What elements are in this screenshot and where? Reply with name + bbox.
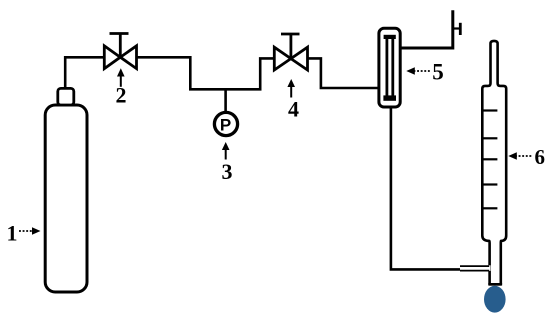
svg-text:3: 3 xyxy=(222,159,233,184)
svg-text:P: P xyxy=(220,116,231,135)
arrow to burette 6 xyxy=(515,155,532,157)
wire cylinder to valve 2 xyxy=(65,57,104,89)
wire valve 4 to rotameter xyxy=(308,58,379,88)
burette 6 outline xyxy=(482,41,506,284)
gas cylinder 1 body xyxy=(45,105,87,292)
burette graduation tick 2 xyxy=(482,137,497,139)
vent outlet tick xyxy=(453,27,460,29)
rotameter 5 inner tube xyxy=(387,37,393,98)
rotameter 5 outer shell xyxy=(379,28,400,107)
gas cylinder 1 neck cap xyxy=(58,88,74,105)
valve V4 handle xyxy=(281,34,300,59)
svg-text:1: 1 xyxy=(7,221,18,246)
valve V4 body xyxy=(274,47,307,70)
wire rotameter to burette (down-right loop) xyxy=(391,107,461,269)
rotameter 5 float bar xyxy=(383,95,396,100)
pressure gauge P circle xyxy=(214,112,237,135)
vent line from rotameter top xyxy=(400,10,453,48)
burette graduation tick 3 xyxy=(482,158,497,160)
svg-text:2: 2 xyxy=(116,83,127,108)
arrow to gauge 3 xyxy=(225,149,227,160)
arrow to valve 2 xyxy=(120,75,122,87)
vent outlet bar xyxy=(459,23,462,35)
arrow to cylinder 1 xyxy=(19,230,32,232)
side arm tube into burette xyxy=(460,265,491,271)
burette bottom tip bar xyxy=(488,283,502,286)
svg-text:5: 5 xyxy=(432,60,444,85)
svg-text:6: 6 xyxy=(535,145,546,169)
valve V2 handle xyxy=(110,34,129,58)
burette graduation tick 1 xyxy=(482,109,497,111)
burette graduation tick 5 xyxy=(482,207,497,209)
wire valve 2 to valve 4 (lower run) xyxy=(137,57,275,89)
arrow to valve 4 xyxy=(290,86,292,98)
rotameter 5 top stop bar xyxy=(384,35,396,39)
valve V2 body xyxy=(104,46,136,69)
arrow to rotameter 5 xyxy=(414,70,431,72)
pressure gauge stem xyxy=(224,89,227,112)
burette graduation tick 4 xyxy=(482,183,497,185)
svg-text:4: 4 xyxy=(288,97,299,122)
water drop xyxy=(484,286,506,313)
